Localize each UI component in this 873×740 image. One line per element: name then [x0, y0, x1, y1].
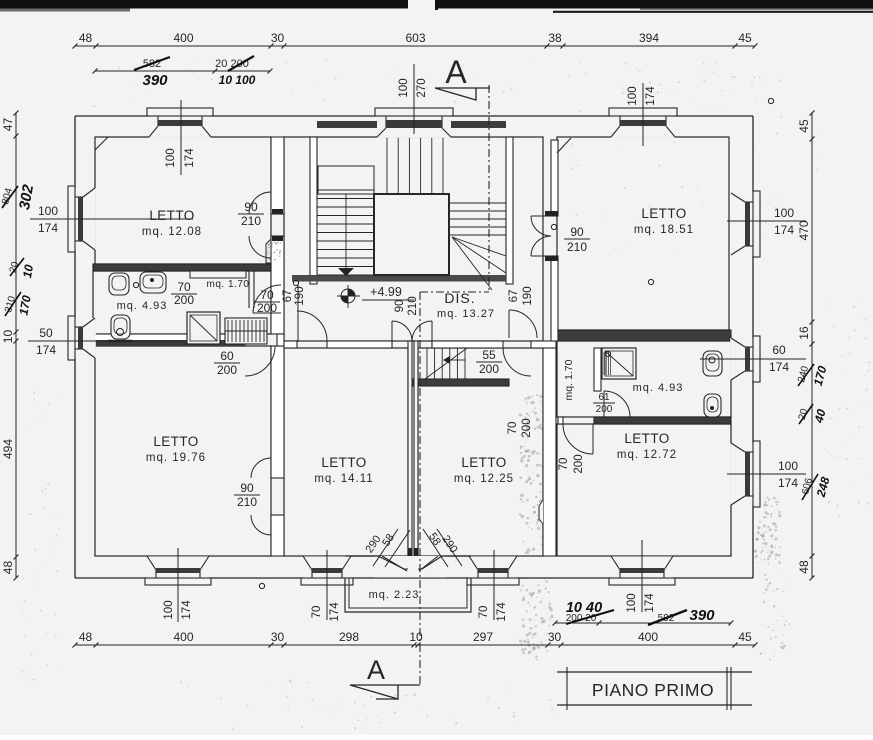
svg-text:50: 50: [39, 326, 53, 340]
svg-text:mq. 4.93: mq. 4.93: [633, 382, 684, 394]
svg-text:10 100: 10 100: [219, 73, 256, 87]
svg-text:190: 190: [522, 286, 534, 305]
svg-text:390: 390: [689, 607, 715, 624]
svg-text:mq. 13.27: mq. 13.27: [437, 308, 495, 320]
svg-text:100: 100: [38, 204, 58, 218]
svg-text:A: A: [445, 54, 467, 90]
svg-text:174: 174: [184, 148, 196, 168]
svg-text:60: 60: [772, 343, 786, 357]
svg-text:200: 200: [521, 418, 533, 437]
svg-text:603: 603: [405, 31, 425, 45]
svg-text:70: 70: [311, 606, 323, 619]
svg-text:200: 200: [479, 362, 499, 376]
svg-text:30: 30: [271, 630, 285, 644]
svg-text:174: 174: [645, 86, 657, 106]
svg-text:70: 70: [558, 458, 570, 471]
svg-text:400: 400: [173, 630, 193, 644]
svg-text:mq. 14.11: mq. 14.11: [314, 473, 373, 485]
svg-text:210: 210: [237, 495, 257, 509]
svg-text:mq. 12.72: mq. 12.72: [617, 449, 677, 461]
svg-text:mq. 12.08: mq. 12.08: [142, 226, 202, 238]
svg-text:298: 298: [339, 630, 359, 644]
svg-text:48: 48: [79, 630, 93, 644]
svg-text:200: 200: [573, 454, 585, 473]
svg-text:mq. 12.25: mq. 12.25: [454, 473, 514, 485]
svg-text:174: 174: [774, 223, 794, 237]
svg-text:400: 400: [173, 31, 193, 45]
svg-text:174: 174: [769, 360, 789, 374]
svg-text:45: 45: [797, 119, 811, 133]
svg-text:mq. 1.70: mq. 1.70: [207, 279, 250, 290]
svg-text:47: 47: [1, 118, 15, 132]
svg-text:210: 210: [567, 240, 587, 254]
svg-text:10: 10: [1, 330, 15, 344]
svg-text:400: 400: [638, 630, 658, 644]
svg-text:61: 61: [598, 392, 610, 403]
svg-text:LETTO: LETTO: [461, 455, 506, 470]
svg-text:mq. 4.93: mq. 4.93: [117, 300, 168, 312]
svg-text:90: 90: [240, 481, 254, 495]
svg-text:70: 70: [507, 422, 519, 435]
svg-text:LETTO: LETTO: [641, 206, 686, 221]
svg-text:45: 45: [738, 31, 752, 45]
svg-text:200: 200: [217, 363, 237, 377]
svg-text:174: 174: [644, 593, 656, 613]
svg-text:16: 16: [797, 326, 811, 340]
svg-text:70: 70: [177, 280, 191, 294]
svg-text:48: 48: [79, 31, 93, 45]
svg-text:394: 394: [639, 31, 659, 45]
svg-text:70: 70: [260, 288, 274, 302]
svg-text:100: 100: [774, 206, 794, 220]
svg-text:174: 174: [778, 476, 798, 490]
svg-text:A: A: [367, 655, 385, 685]
svg-text:48: 48: [797, 560, 811, 574]
svg-text:38: 38: [548, 31, 562, 45]
svg-text:mq. 2.23: mq. 2.23: [369, 589, 420, 601]
svg-text:LETTO: LETTO: [149, 208, 194, 223]
svg-text:90: 90: [570, 225, 584, 239]
svg-text:PIANO PRIMO: PIANO PRIMO: [592, 680, 714, 700]
svg-text:mq. 19.76: mq. 19.76: [146, 452, 206, 464]
svg-text:100: 100: [627, 86, 639, 105]
svg-text:LETTO: LETTO: [153, 434, 198, 449]
svg-text:DIS.: DIS.: [444, 290, 475, 306]
svg-text:100: 100: [626, 593, 638, 612]
svg-text:100: 100: [163, 600, 175, 619]
svg-text:190: 190: [294, 286, 306, 305]
svg-text:297: 297: [473, 630, 493, 644]
svg-text:mq. 1.70: mq. 1.70: [563, 359, 575, 400]
svg-text:174: 174: [38, 221, 58, 235]
svg-text:LETTO: LETTO: [321, 455, 366, 470]
svg-text:30: 30: [271, 31, 285, 45]
svg-text:100: 100: [778, 459, 798, 473]
svg-text:90: 90: [394, 300, 406, 313]
svg-text:210: 210: [407, 296, 419, 315]
svg-text:48: 48: [1, 561, 15, 575]
svg-text:60: 60: [220, 349, 234, 363]
svg-text:174: 174: [329, 602, 341, 622]
svg-text:100: 100: [398, 78, 410, 97]
svg-text:LETTO: LETTO: [624, 431, 669, 446]
svg-text:210: 210: [241, 214, 261, 228]
svg-text:55: 55: [482, 348, 496, 362]
svg-text:200: 200: [174, 293, 194, 307]
svg-text:67: 67: [508, 290, 520, 303]
svg-text:mq. 18.51: mq. 18.51: [634, 224, 694, 236]
svg-text:70: 70: [478, 606, 490, 619]
svg-text:10: 10: [409, 630, 423, 644]
svg-text:174: 174: [36, 343, 56, 357]
svg-text:10: 10: [20, 263, 36, 279]
svg-text:200: 200: [257, 301, 277, 315]
svg-text:200: 200: [596, 404, 613, 415]
svg-text:470: 470: [797, 220, 811, 240]
svg-text:494: 494: [1, 439, 15, 459]
svg-text:90: 90: [244, 200, 258, 214]
svg-text:270: 270: [416, 78, 428, 97]
svg-text:100: 100: [165, 148, 177, 167]
svg-text:390: 390: [142, 72, 168, 89]
svg-text:30: 30: [548, 630, 562, 644]
svg-text:+4.99: +4.99: [370, 285, 402, 299]
svg-text:174: 174: [496, 602, 508, 622]
svg-text:67: 67: [282, 290, 294, 303]
svg-text:174: 174: [181, 600, 193, 620]
svg-text:45: 45: [738, 630, 752, 644]
